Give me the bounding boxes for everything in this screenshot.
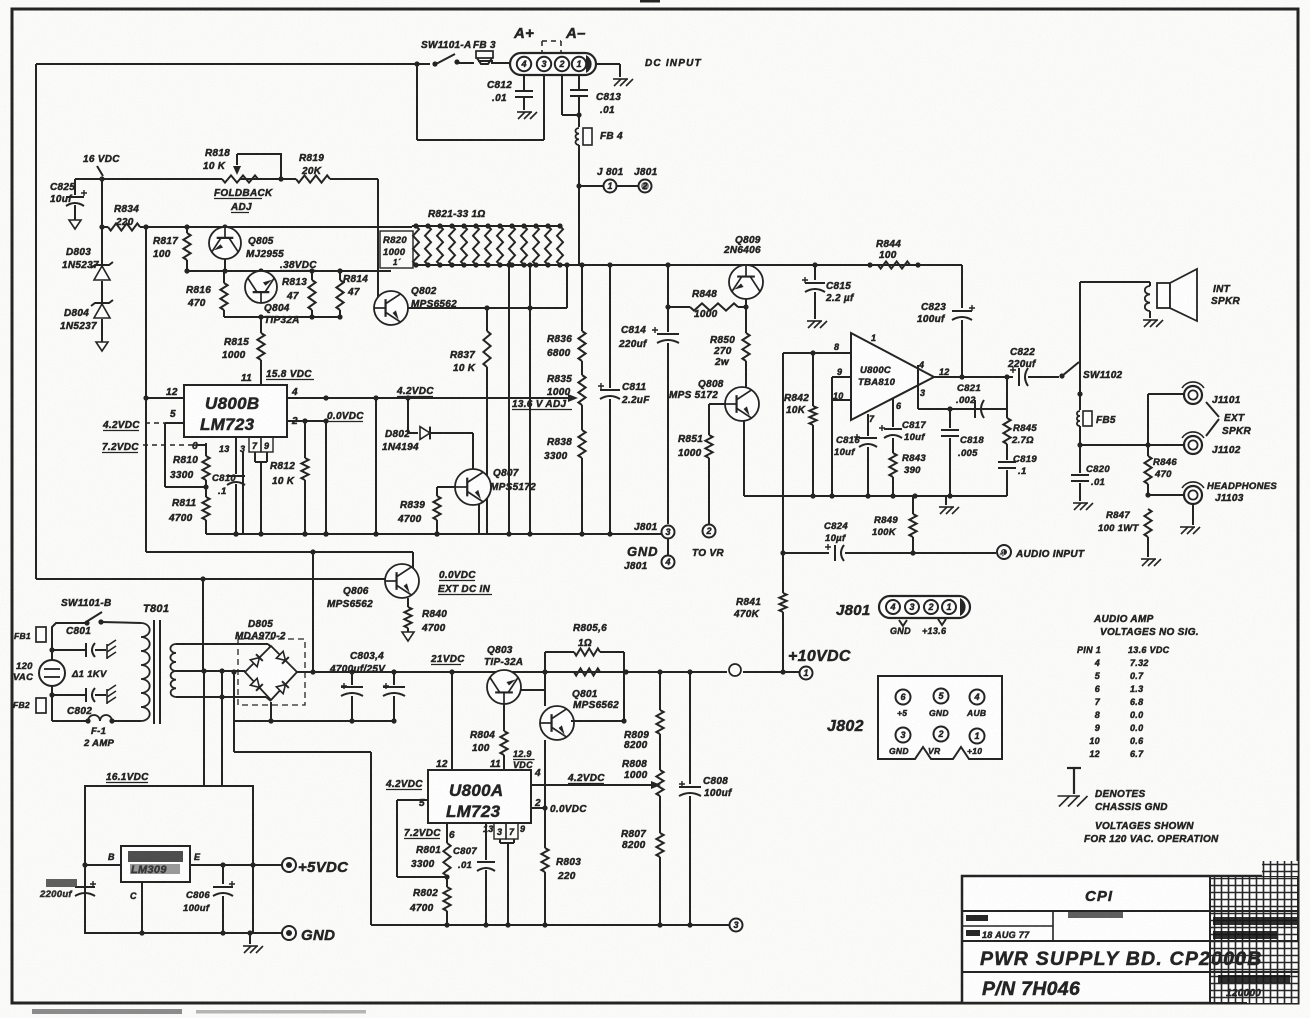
capacitor C825 — [66, 179, 87, 220]
wire q808 down — [743, 420, 745, 496]
label Q804 — [264, 303, 300, 326]
J801 pin2 — [924, 600, 938, 614]
ground arrow C825 — [69, 220, 81, 229]
capacitor C804 — [383, 672, 405, 724]
wire FB3 to connector — [491, 62, 511, 64]
connector J801 pin3 mid — [662, 526, 675, 539]
resistor R846 — [1144, 445, 1151, 498]
connector J801 pin4 mid — [662, 539, 675, 569]
resistor R836 — [578, 265, 585, 361]
resistor R842 — [809, 353, 816, 496]
wire loop pin3 — [417, 64, 544, 140]
diode D802 — [408, 398, 473, 439]
J801 pin3 — [905, 600, 919, 614]
resistor R806 — [574, 668, 600, 675]
label 4.2VDC A-left — [385, 779, 423, 790]
chassis ground audio rail — [939, 496, 959, 514]
transistor Q805 — [209, 227, 241, 259]
chassis ground DC input — [613, 79, 633, 86]
label R809 — [624, 730, 649, 751]
label R834 — [114, 204, 139, 228]
pin 11 U800A — [490, 759, 501, 770]
wire x234 — [231, 669, 236, 721]
wire x313 drop — [310, 552, 315, 675]
label +5VDC — [298, 859, 349, 876]
title PN 7H046 — [982, 978, 1080, 1000]
label DC INPUT — [645, 58, 702, 69]
label AUDIO INPUT — [1015, 549, 1085, 560]
label D803 — [62, 247, 99, 271]
pin 5 U800B — [165, 409, 184, 423]
capacitor C806 — [213, 865, 235, 936]
resistor R850 — [742, 307, 749, 388]
bracket EXT SPKR — [1206, 402, 1219, 436]
label C817 — [902, 420, 926, 443]
ferrite bead FB4 — [575, 128, 592, 145]
label R819 — [299, 153, 324, 177]
wire pin3 drop — [242, 452, 244, 534]
capacitor C813 — [570, 75, 588, 115]
capacitor C811 — [598, 265, 620, 534]
title block frame — [962, 861, 1298, 1003]
resistor R809 — [656, 672, 663, 734]
connector J802 shell — [878, 676, 1002, 759]
label R847 — [1098, 510, 1140, 534]
resistor bank R821-33 — [412, 223, 563, 267]
zener D803 — [91, 179, 113, 280]
label R850 — [710, 335, 735, 368]
J802 pin4 — [970, 690, 985, 705]
speaker coil — [1145, 282, 1150, 318]
wire to J1103 — [1148, 494, 1184, 496]
label R815 — [222, 337, 249, 361]
resistor R802 — [443, 877, 450, 928]
label R849 — [872, 515, 898, 538]
label R804 — [470, 730, 495, 754]
chassis ground C815 — [807, 321, 827, 328]
capacitor C807 — [477, 823, 495, 928]
J802 pin5 — [934, 689, 949, 704]
capacitor C823 — [952, 265, 975, 377]
label 21VDC — [430, 654, 465, 665]
resistor R816 — [220, 271, 227, 317]
+10v rail — [297, 669, 799, 674]
resistor R813 — [308, 271, 315, 317]
J801 pin4 — [886, 600, 900, 614]
title CPI — [1085, 888, 1113, 905]
label C808 — [703, 776, 733, 799]
wire output 377 — [934, 374, 1013, 379]
transistor Q809 — [729, 265, 763, 299]
wire x203 drop — [202, 579, 204, 671]
capacitor C820 — [1071, 445, 1089, 501]
label GND bottom — [301, 927, 335, 944]
label FOLDBACK ADJ — [214, 188, 273, 213]
dashed strap A+ A- — [542, 41, 561, 53]
label R801 — [411, 845, 441, 870]
jack J1102 — [1182, 432, 1204, 454]
resistor R801 — [443, 823, 450, 876]
resistor R840 — [404, 598, 411, 632]
pin boxes U800A — [483, 823, 525, 839]
label C805 — [39, 879, 77, 900]
AC source 120VAC — [39, 650, 65, 695]
power ground rail — [206, 531, 661, 536]
label A- — [565, 25, 586, 42]
wire 16vdc rail — [75, 178, 205, 180]
label J801 top b — [634, 167, 658, 178]
capacitor C803 — [341, 672, 363, 724]
pin 4 U800B — [287, 387, 326, 398]
chassis ground C812 — [517, 112, 537, 119]
label Q805 — [246, 236, 284, 260]
chassis ground C802 — [107, 685, 116, 704]
label C816 — [834, 435, 860, 458]
label 0.0VDC A — [550, 804, 587, 815]
node 16 VDC — [83, 154, 120, 182]
terminal 1 +10VDC — [800, 667, 813, 680]
switch SW1102 — [1062, 362, 1079, 376]
lower rail 721 — [234, 720, 394, 722]
wire speaker drop — [1077, 282, 1082, 397]
resistor R844 — [878, 261, 910, 268]
label Q801 — [572, 689, 619, 711]
pin 3 of DC connector — [537, 57, 551, 71]
capacitor C812 — [515, 75, 533, 110]
wire q806 collector — [412, 552, 414, 568]
label Q807 — [490, 468, 536, 493]
wire 271 rail — [184, 268, 391, 273]
label SW1101-B — [61, 598, 112, 609]
wire x668 r848 — [665, 304, 670, 309]
label C820 — [1086, 464, 1110, 488]
jack J1103 ground — [1180, 504, 1200, 534]
title PWR SUPPLY — [980, 948, 1263, 970]
speaker INT SPKR — [1157, 269, 1197, 321]
wire sw to FB3 — [457, 62, 474, 64]
wire q805 collector — [222, 259, 227, 274]
label Q802 — [411, 286, 457, 310]
label 7.2VDC left — [102, 442, 196, 453]
IC U800B LM723 — [184, 385, 287, 437]
gnd drop path — [234, 721, 371, 925]
ferrite bead FB1 — [14, 627, 46, 642]
wire sec top tap — [176, 644, 271, 647]
label R838 — [544, 437, 572, 462]
label 16.1VDC — [106, 772, 149, 783]
J802 pin labels — [889, 708, 986, 756]
label C813 — [596, 92, 621, 116]
label R810 — [170, 455, 198, 481]
resistor R837 — [483, 308, 490, 534]
wire pin1 to chassis — [595, 64, 620, 77]
label R805-6 — [573, 623, 607, 649]
pin 11 U800B — [241, 369, 314, 384]
label R817 — [153, 236, 178, 260]
terminal 2 TO VR — [703, 525, 716, 538]
wire pin6 stub — [196, 444, 206, 446]
label C814 — [618, 325, 648, 350]
label R839 — [397, 500, 425, 525]
chassis ground speaker — [1143, 320, 1163, 327]
switch SW1101-A — [436, 54, 460, 65]
label R845 — [1011, 423, 1037, 446]
label 13.6 V ADJ — [512, 399, 572, 410]
wire q803 collector — [521, 689, 545, 691]
label R843 — [902, 453, 926, 476]
connector J801 pin1 top — [604, 180, 617, 193]
title smudge right2 — [1218, 975, 1290, 999]
resistor R819 — [296, 175, 330, 182]
boxed label R820 — [380, 231, 413, 268]
label C801 — [66, 626, 91, 637]
resistor R803 — [541, 808, 548, 928]
label GND +13.6 — [890, 626, 947, 636]
label R821-33 — [428, 209, 486, 220]
capacitor C818 — [941, 409, 959, 496]
label FB4 — [600, 131, 623, 142]
wire ac top — [52, 622, 141, 650]
op-amp U800C — [851, 333, 934, 420]
fuse F-1 — [52, 695, 141, 724]
resistor R841 — [779, 553, 786, 672]
label C812 — [487, 80, 512, 104]
terminal 4 audio input — [997, 545, 1011, 559]
bridge bottom drop — [268, 702, 273, 724]
pin 4 U800A — [531, 768, 661, 789]
label C815 — [825, 281, 855, 304]
resistor R851 — [705, 404, 712, 524]
label Q803 — [484, 645, 523, 668]
capacitor C810 — [227, 437, 245, 537]
pin E U800D — [190, 852, 283, 868]
label C822 — [1007, 347, 1037, 370]
capacitor C822 — [1010, 367, 1028, 386]
transistor Q808 — [725, 387, 759, 421]
resistor R834 — [99, 223, 148, 230]
main bus wire — [416, 262, 962, 267]
label J1102 — [1212, 445, 1241, 456]
pin 1 of DC connector — [572, 57, 586, 71]
ferrite bead FB2 — [13, 698, 46, 713]
wire to J801-1 — [579, 185, 603, 187]
wire q803 base — [503, 704, 505, 731]
resistor R805 loop — [545, 648, 624, 721]
connector DC input shell — [510, 53, 596, 75]
label 7.2VDC A — [404, 828, 441, 839]
label R818 — [203, 148, 230, 172]
label C802 — [67, 706, 92, 717]
J802 pin3 — [896, 728, 911, 743]
resistor R848 — [668, 303, 749, 310]
resistor R807 — [656, 833, 663, 928]
J802 pin1 — [970, 729, 985, 744]
label C823 — [917, 302, 946, 325]
wire x783 — [780, 353, 785, 556]
label VOLTAGES SHOWN — [1084, 821, 1219, 845]
wire q807 emitter — [478, 504, 480, 534]
label 4.2VDC left — [102, 420, 165, 431]
resistor R811 — [202, 487, 209, 534]
ferrite bead FB5 — [1077, 394, 1092, 445]
resistor R810 — [202, 443, 209, 487]
capacitor C801 line — [49, 643, 106, 657]
voltage table — [1077, 645, 1170, 759]
label C825 — [50, 182, 75, 205]
second rail 552 — [146, 549, 413, 554]
label C807 — [453, 846, 477, 871]
wire x376 drop — [373, 398, 378, 537]
label FB3 — [473, 40, 496, 51]
J801 pin1 — [942, 600, 956, 614]
capacitor C802 line — [49, 688, 106, 702]
label J801 GND mid — [624, 522, 658, 572]
wire q809 collector — [745, 299, 747, 307]
label C821 — [956, 383, 981, 406]
label A+ — [513, 25, 534, 42]
wire foldback mid — [240, 178, 296, 180]
label Q806 — [327, 586, 373, 610]
label J802 big — [827, 718, 864, 735]
terminal +5VDC — [282, 858, 296, 872]
label R846 — [1153, 457, 1177, 480]
IC U800D LM309 — [121, 846, 190, 882]
resistor R812 — [301, 418, 308, 536]
+5v box loop — [85, 786, 253, 933]
resistor R804 — [500, 731, 507, 770]
capacitor C819 — [998, 462, 1016, 496]
pin 6 U800B — [192, 441, 198, 452]
potentiometer R808 — [656, 734, 663, 833]
ferrite bead FB3 — [476, 51, 493, 64]
label C810 — [212, 473, 236, 497]
chassis ground legend — [1058, 768, 1088, 807]
transformer T801 secondary — [170, 644, 176, 697]
wire center tap drop — [203, 671, 205, 786]
label SW1101-A — [421, 40, 472, 51]
wire bottom tap drop — [221, 671, 223, 786]
label R841 — [733, 597, 761, 620]
wire q801 top — [544, 672, 546, 706]
wire pins37 drop — [500, 839, 514, 928]
J802 pin2 — [934, 727, 949, 742]
dashed box D805 — [238, 639, 305, 705]
label R840 — [421, 609, 447, 634]
pin 2 U800B — [287, 416, 329, 427]
label R807 — [621, 829, 646, 851]
wire x509 — [506, 262, 511, 534]
wire sec bottom tap — [176, 694, 271, 701]
label 120 VAC — [13, 661, 33, 683]
capacitor C808 — [679, 672, 701, 928]
wire pin5 loop A — [397, 800, 450, 880]
label C818 — [958, 435, 984, 459]
bottom rail A — [371, 924, 729, 926]
wire 13.6 adj arrow — [287, 394, 578, 402]
wire x567 — [564, 262, 569, 308]
label 0.0VDC B — [327, 411, 364, 422]
label D804 — [60, 308, 97, 332]
label R848 — [692, 289, 718, 320]
capacitor C817 and R843 — [879, 399, 902, 496]
resistor R849 — [909, 496, 916, 553]
capacitor C821 — [975, 400, 984, 418]
label EXT DC IN — [438, 570, 492, 595]
wire to J1101 — [1148, 394, 1184, 445]
transistor Q802 — [374, 291, 408, 325]
label cap rating — [71, 669, 107, 680]
J802 pin6 — [896, 690, 911, 705]
terminal 3 bottom — [730, 919, 743, 932]
jack J1103 — [1182, 482, 1204, 504]
label DENOTES CHASSIS GND — [1095, 789, 1168, 813]
ground arrow D804 — [96, 319, 108, 351]
capacitor C816 — [854, 414, 877, 496]
label INT SPKR — [1211, 284, 1240, 307]
label D802 — [382, 429, 419, 453]
capacitor C815 — [802, 265, 825, 319]
label R851 — [678, 434, 703, 459]
resistor R814 — [336, 271, 343, 317]
label C806 — [183, 890, 210, 914]
resistor R838 — [578, 430, 585, 534]
pin 4 of DC connector — [517, 57, 531, 71]
audio ground rail — [744, 493, 1007, 498]
wire A- down — [578, 115, 580, 127]
wire sec center tap — [176, 668, 245, 673]
transformer core — [154, 620, 160, 724]
label R808 — [622, 759, 648, 781]
label J801 top a — [597, 167, 624, 178]
potentiometer R835 — [578, 361, 585, 430]
label VOLTAGES NO SIG — [1100, 627, 1199, 638]
wire J801 1-2 — [617, 185, 638, 187]
transistor Q803 — [487, 670, 521, 704]
label TO VR — [692, 548, 724, 559]
wire q801 bottom — [542, 740, 547, 811]
pin 5 U800A — [397, 798, 428, 809]
pin 6 U800A — [449, 830, 455, 841]
transistor Q807 — [455, 469, 491, 505]
resistor R817 — [183, 227, 190, 271]
switch SW1101-B — [84, 612, 103, 626]
transistor Q806 — [385, 564, 419, 598]
pin 2 of DC connector — [555, 57, 569, 71]
resistor R845 — [1003, 377, 1010, 460]
label EXT SPKR — [1222, 413, 1251, 437]
wire pin8 line — [783, 350, 851, 355]
jack J1101 — [1182, 382, 1204, 404]
wire to sw1102 — [1028, 373, 1065, 378]
pin labels U800C — [833, 333, 950, 424]
transistor Q804 — [245, 271, 277, 303]
wire q808 base — [709, 403, 725, 405]
label R802 — [409, 888, 438, 914]
wire top bus — [36, 61, 438, 66]
label C803-4 — [329, 651, 386, 675]
IC U800A LM723 — [428, 770, 531, 823]
connector J801 pin2 top — [639, 180, 652, 193]
title date — [966, 930, 1030, 940]
label T801 — [143, 603, 169, 615]
ground arrow R840 — [402, 632, 414, 641]
label R803 — [556, 857, 581, 882]
label +10VDC — [788, 648, 851, 665]
label R811 — [168, 498, 197, 524]
wire pin4 stub — [917, 365, 919, 409]
title smudge right1 — [1213, 917, 1297, 939]
wire q802 out — [408, 305, 567, 310]
